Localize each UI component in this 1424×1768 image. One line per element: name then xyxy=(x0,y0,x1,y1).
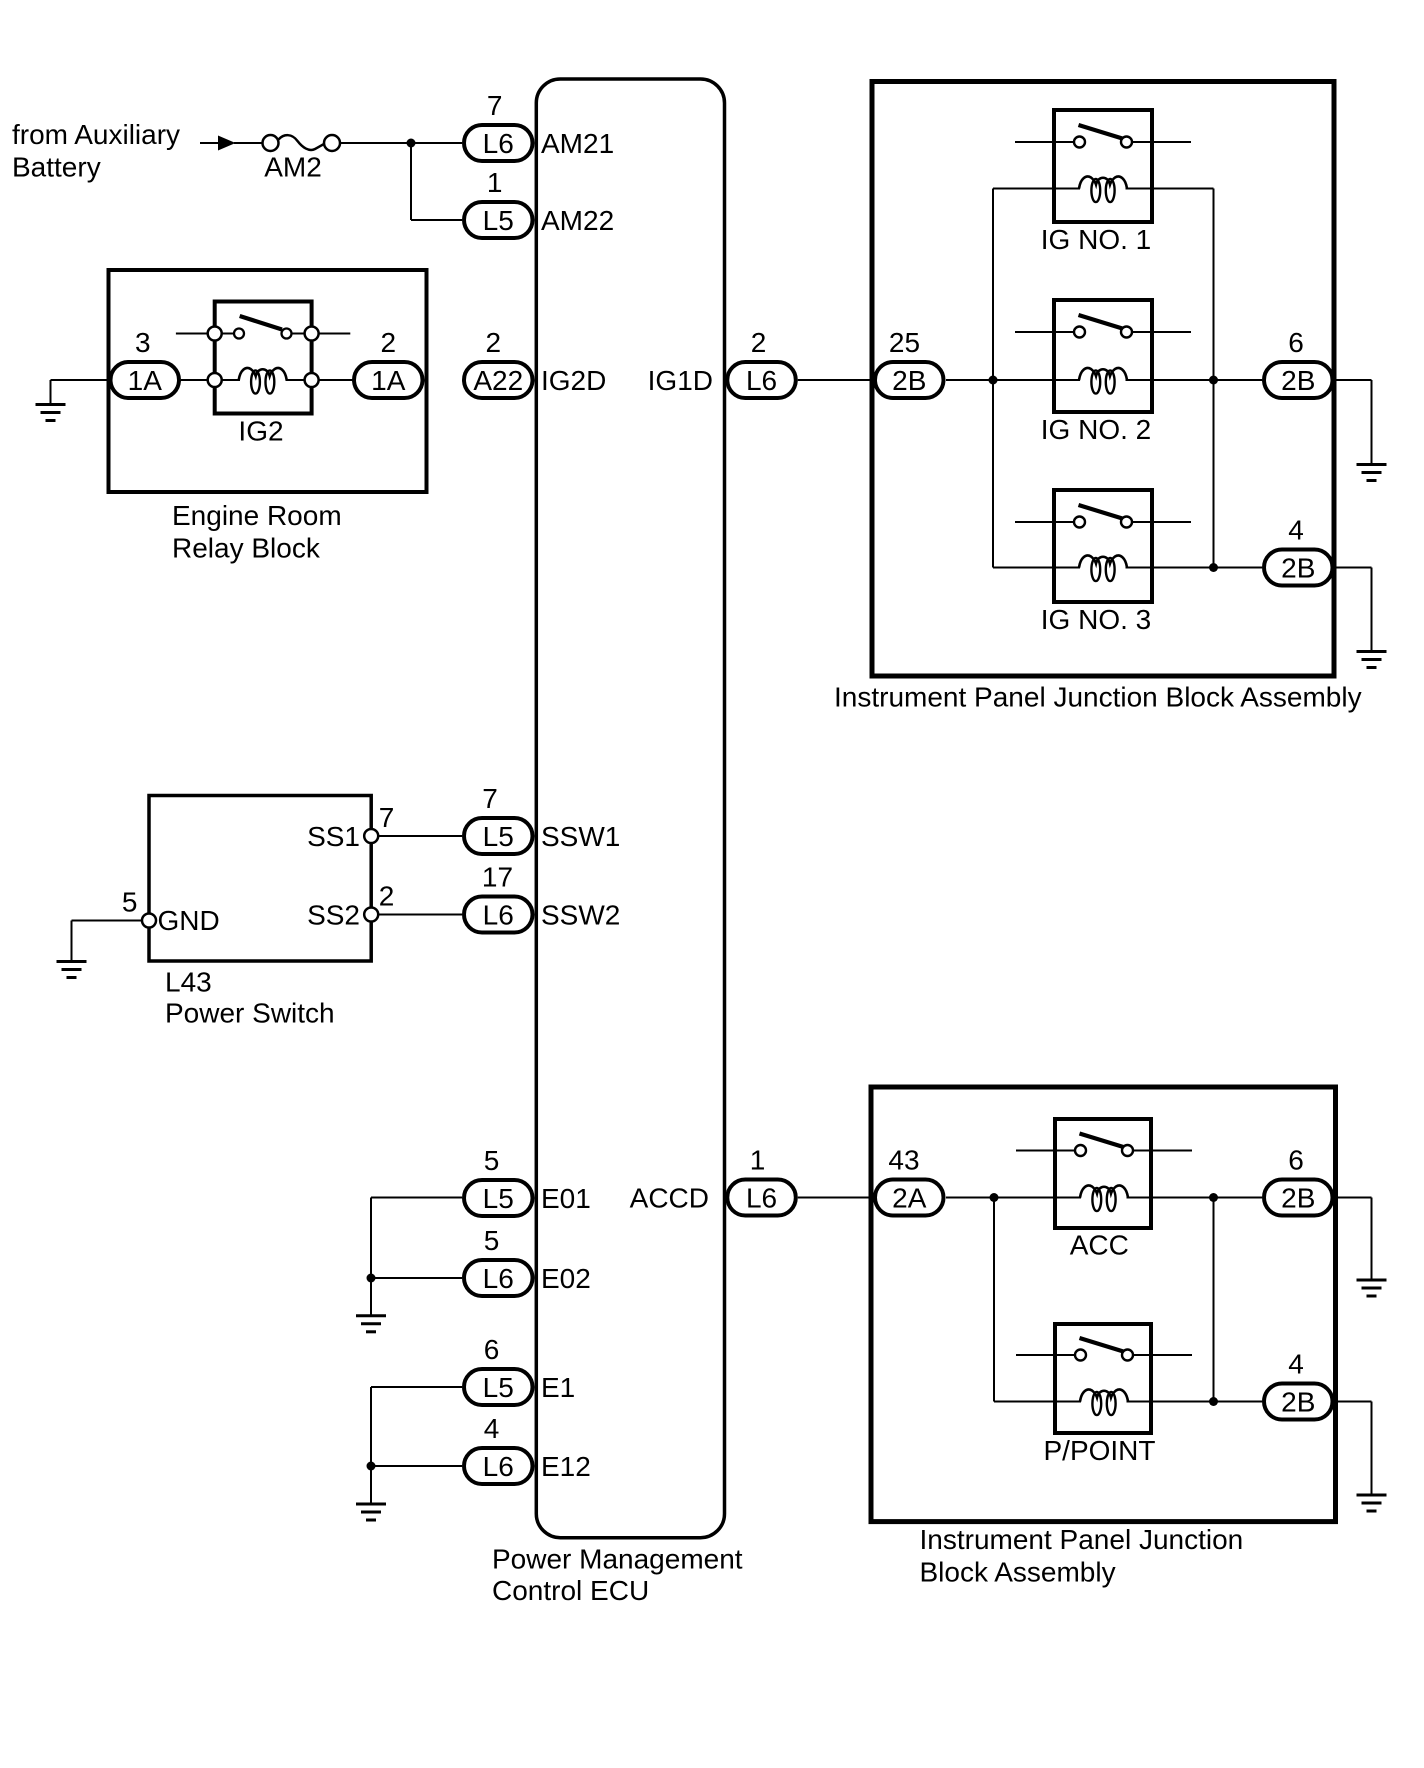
pin 7 label xyxy=(487,90,503,121)
connector 2B pin25 xyxy=(875,362,944,398)
svg-text:Control ECU: Control ECU xyxy=(492,1575,649,1606)
junction dot right bus IG3 xyxy=(1209,563,1218,572)
pin 5 label GND xyxy=(122,887,138,918)
Engine Room Relay Block box xyxy=(109,270,427,492)
label IG2 xyxy=(238,416,283,447)
wire bus to 2B6 xyxy=(1214,379,1263,381)
svg-text:L6: L6 xyxy=(483,1263,514,1294)
right bus (bottom box) xyxy=(1213,1198,1215,1402)
pin 5 label E01 xyxy=(484,1145,500,1176)
svg-text:4: 4 xyxy=(1288,1349,1304,1380)
svg-text:L6: L6 xyxy=(746,365,777,396)
wire E12 ground xyxy=(371,1465,462,1467)
wire to 2B4 bottom xyxy=(1214,1401,1263,1403)
ground 2B6 bottom xyxy=(1357,1280,1387,1296)
relay IG2 box xyxy=(215,302,312,414)
left bus (top box) xyxy=(992,189,994,568)
label P/POINT xyxy=(1043,1435,1155,1466)
Instrument Panel Junction Block box (bottom) xyxy=(871,1087,1336,1522)
svg-text:2: 2 xyxy=(486,327,502,358)
svg-text:2B: 2B xyxy=(1281,553,1315,584)
svg-text:Battery: Battery xyxy=(12,152,101,183)
svg-text:A22: A22 xyxy=(473,365,523,396)
pin 7 label SS1 xyxy=(379,802,395,833)
connector L5 pin6 E1 xyxy=(464,1369,533,1405)
pin name E12 xyxy=(541,1451,591,1482)
pin name E1 xyxy=(541,1372,575,1403)
svg-text:IG1D: IG1D xyxy=(648,365,713,396)
svg-text:E1: E1 xyxy=(541,1372,575,1403)
connector 2A pin43 xyxy=(875,1180,944,1216)
svg-text:2: 2 xyxy=(381,327,397,358)
pin name SS1 xyxy=(307,821,360,852)
connector 2B pin6 bottom xyxy=(1264,1180,1333,1216)
svg-text:ACC: ACC xyxy=(1070,1230,1129,1261)
svg-text:SS1: SS1 xyxy=(307,821,360,852)
svg-text:1: 1 xyxy=(750,1145,766,1176)
wire IG2 relay to 1A xyxy=(286,379,354,381)
pin name IG1D xyxy=(648,365,713,396)
wire coil3 row xyxy=(993,567,1214,569)
svg-text:2: 2 xyxy=(751,327,767,358)
svg-text:IG2: IG2 xyxy=(238,416,283,447)
svg-text:6: 6 xyxy=(1288,1145,1304,1176)
ground power-switch xyxy=(57,921,144,978)
connector L5 pin7 SSW1 xyxy=(464,818,533,854)
svg-text:4: 4 xyxy=(1288,515,1304,546)
svg-text:L6: L6 xyxy=(483,1451,514,1482)
wire ACCD to 2A xyxy=(798,1197,873,1199)
svg-text:2B: 2B xyxy=(892,365,926,396)
relay IG NO.2 guts xyxy=(1015,315,1191,394)
connector A22 pin2 IG2D xyxy=(464,362,533,398)
Power Switch box L43 xyxy=(149,796,371,962)
relay IG NO.3 guts xyxy=(1015,505,1191,581)
ground engine-room xyxy=(36,380,111,421)
pin name AM22 xyxy=(541,205,614,236)
relay IG NO.1 guts xyxy=(1015,125,1191,202)
connector L6 pin5 E02 xyxy=(464,1260,533,1296)
relay IG2 switch blade xyxy=(240,316,282,330)
junction dot E02 xyxy=(367,1274,376,1283)
wire SS1 to SSW1 xyxy=(378,835,462,837)
fuse AM2 xyxy=(263,135,341,151)
svg-text:2: 2 xyxy=(379,881,395,912)
ground E1 E12 xyxy=(356,1504,386,1520)
label IG NO. 3 xyxy=(1041,604,1151,635)
pin 4 label xyxy=(1288,515,1304,546)
wire ACC coil row xyxy=(994,1197,1214,1199)
ground 2B4 xyxy=(1357,652,1387,668)
connector 1A pin3 xyxy=(111,362,180,398)
svg-text:Instrument Panel Junction: Instrument Panel Junction xyxy=(920,1524,1244,1555)
relay IG NO.1 box xyxy=(1054,110,1152,222)
pin 2 label xyxy=(486,327,502,358)
label ACC xyxy=(1070,1230,1129,1261)
label Instrument Panel Junction Block Assembly xyxy=(834,682,1362,713)
wire E02 ground xyxy=(371,1277,462,1279)
svg-text:L5: L5 xyxy=(483,821,514,852)
connector 2B pin4 bottom xyxy=(1264,1384,1333,1420)
svg-text:6: 6 xyxy=(1288,327,1304,358)
relay IG NO.2 box xyxy=(1054,300,1152,412)
wire 2B6 to ground xyxy=(1335,380,1372,465)
wire branch to AM22 xyxy=(411,143,462,220)
svg-text:2A: 2A xyxy=(892,1183,927,1214)
svg-text:AM22: AM22 xyxy=(541,205,614,236)
wire SS2 to SSW2 xyxy=(378,914,462,916)
wire from auxiliary battery xyxy=(200,142,218,144)
Instrument Panel Junction Block box (top) xyxy=(872,82,1334,677)
wire E01 ground xyxy=(371,1198,462,1316)
pin name E01 xyxy=(541,1183,591,1214)
pin 6 label xyxy=(1288,327,1304,358)
pin GND circle xyxy=(142,914,156,928)
ECU box Power Management Control ECU xyxy=(536,79,724,1538)
wire 2B25 to bus xyxy=(946,379,993,381)
svg-text:2B: 2B xyxy=(1281,1183,1315,1214)
svg-text:7: 7 xyxy=(379,802,395,833)
junction dot right ACC xyxy=(1209,1193,1218,1202)
pin 1 label xyxy=(487,167,503,198)
svg-text:IG NO. 1: IG NO. 1 xyxy=(1041,224,1151,255)
svg-text:2B: 2B xyxy=(1281,1387,1315,1418)
pin 4 label E12 xyxy=(484,1413,500,1444)
svg-text:1A: 1A xyxy=(371,365,406,396)
svg-text:L43: L43 xyxy=(165,967,212,998)
pin name ACCD xyxy=(630,1183,709,1214)
svg-text:E01: E01 xyxy=(541,1183,591,1214)
svg-text:Engine Room: Engine Room xyxy=(172,500,342,531)
junction dot right P/POINT xyxy=(1209,1397,1218,1406)
svg-text:25: 25 xyxy=(889,327,920,358)
left bus (bottom box) xyxy=(993,1198,995,1402)
connector L6 pin7 AM21 xyxy=(464,125,533,161)
svg-text:3: 3 xyxy=(135,327,151,358)
pin 2 label SS2 xyxy=(379,881,395,912)
svg-text:Power Switch: Power Switch xyxy=(165,998,335,1029)
relay IG2 switch stubs xyxy=(176,333,350,335)
label AM2 xyxy=(264,152,322,183)
relay ACC guts xyxy=(1016,1134,1192,1212)
pin name SS2 xyxy=(307,900,360,931)
wire 2A to dot xyxy=(946,1197,994,1199)
svg-text:IG2D: IG2D xyxy=(541,365,606,396)
wire 2B4b to ground xyxy=(1335,1402,1372,1496)
ground 2B4 bottom xyxy=(1357,1495,1387,1511)
ground E01 E02 xyxy=(356,1316,386,1332)
node from-battery text xyxy=(12,119,180,183)
pin 2 label 1A xyxy=(381,327,397,358)
pin name SSW2 xyxy=(541,900,620,931)
label Power Management Control ECU xyxy=(492,1544,743,1607)
svg-text:IG NO. 3: IG NO. 3 xyxy=(1041,604,1151,635)
label Instrument Panel Junction Block Assembly (bottom) xyxy=(920,1524,1244,1588)
svg-text:5: 5 xyxy=(122,887,138,918)
connector 1A pin2 xyxy=(354,362,423,398)
svg-text:5: 5 xyxy=(484,1145,500,1176)
label Engine Room Relay Block xyxy=(172,500,342,564)
svg-text:SS2: SS2 xyxy=(307,900,360,931)
pin 3 label xyxy=(135,327,151,358)
pin 2 label IG1D xyxy=(751,327,767,358)
svg-text:from Auxiliary: from Auxiliary xyxy=(12,119,180,150)
svg-text:L6: L6 xyxy=(746,1183,777,1214)
pin 5 label E02 xyxy=(484,1225,500,1256)
connector L6 pin2 IG1D xyxy=(727,362,796,398)
svg-text:1A: 1A xyxy=(128,365,163,396)
label IG NO. 1 xyxy=(1041,224,1151,255)
svg-text:4: 4 xyxy=(484,1413,500,1444)
relay IG2 contacts xyxy=(234,329,292,339)
svg-text:L5: L5 xyxy=(483,1183,514,1214)
svg-text:AM21: AM21 xyxy=(541,128,614,159)
connector 2B pin4 xyxy=(1264,550,1333,586)
pin name SSW1 xyxy=(541,821,620,852)
svg-text:IG NO. 2: IG NO. 2 xyxy=(1041,414,1151,445)
svg-text:Instrument Panel Junction Bloc: Instrument Panel Junction Block Assembly xyxy=(834,682,1362,713)
svg-text:E12: E12 xyxy=(541,1451,591,1482)
relay ACC box xyxy=(1055,1119,1151,1228)
svg-text:Power Management: Power Management xyxy=(492,1544,743,1575)
wire 2B6b to ground xyxy=(1335,1198,1372,1281)
pin 7 label SSW1 xyxy=(482,783,498,814)
wire fuse to AM21 xyxy=(340,142,462,144)
pin name GND xyxy=(158,905,220,936)
wire 2B4 to ground xyxy=(1335,568,1372,652)
svg-text:AM2: AM2 xyxy=(264,152,322,183)
relay IG2 coil xyxy=(239,368,287,394)
svg-text:L6: L6 xyxy=(483,128,514,159)
junction dot AM2 branch xyxy=(407,139,416,148)
svg-text:Block Assembly: Block Assembly xyxy=(920,1557,1116,1588)
connector 2B pin6 xyxy=(1264,362,1333,398)
pin name AM21 xyxy=(541,128,614,159)
svg-text:5: 5 xyxy=(484,1225,500,1256)
wire 1A to IG2 relay xyxy=(181,379,240,381)
connector L6 pin4 E12 xyxy=(464,1448,533,1484)
pin name E02 xyxy=(541,1263,591,1294)
pin 6 label bottom xyxy=(1288,1145,1304,1176)
wire bus to 2B4 xyxy=(1214,567,1263,569)
wire coil2 row xyxy=(993,379,1214,381)
pin SS1 circle xyxy=(364,829,378,843)
relay P/POINT guts xyxy=(1016,1338,1192,1415)
label IG NO. 2 xyxy=(1041,414,1151,445)
connector L5 pin5 E01 xyxy=(464,1180,533,1216)
svg-text:ACCD: ACCD xyxy=(630,1183,709,1214)
svg-text:P/POINT: P/POINT xyxy=(1043,1435,1155,1466)
label L43 Power Switch xyxy=(165,967,335,1029)
pin 25 label xyxy=(889,327,920,358)
junction dot ACC row xyxy=(990,1193,999,1202)
svg-text:L5: L5 xyxy=(483,205,514,236)
wire P/POINT coil row xyxy=(994,1401,1214,1403)
connector L6 pin17 SSW2 xyxy=(464,897,533,933)
svg-text:7: 7 xyxy=(487,90,503,121)
svg-text:Relay Block: Relay Block xyxy=(172,533,321,564)
pin 43 label xyxy=(888,1145,919,1176)
ground 2B6 xyxy=(1357,465,1387,481)
pin 17 label xyxy=(482,862,513,893)
wire IG1D to 2B xyxy=(798,379,873,381)
svg-text:7: 7 xyxy=(482,783,498,814)
battery feed arrow xyxy=(218,136,263,151)
svg-text:E02: E02 xyxy=(541,1263,591,1294)
connector L5 pin1 AM22 xyxy=(464,202,533,238)
connector L6 pin1 ACCD xyxy=(727,1180,796,1216)
svg-text:SSW2: SSW2 xyxy=(541,900,620,931)
svg-text:6: 6 xyxy=(484,1334,500,1365)
svg-text:L6: L6 xyxy=(483,900,514,931)
svg-text:17: 17 xyxy=(482,862,513,893)
right bus (top box) xyxy=(1213,189,1215,568)
junction dot E12 xyxy=(367,1462,376,1471)
junction dot right bus IG1 xyxy=(1209,376,1218,385)
relay IG NO.3 box xyxy=(1054,490,1152,602)
junction dot left bus xyxy=(989,376,998,385)
svg-text:2B: 2B xyxy=(1281,365,1315,396)
wire to 2B6 bottom xyxy=(1214,1197,1263,1199)
svg-text:43: 43 xyxy=(888,1145,919,1176)
relay P/POINT box xyxy=(1055,1324,1151,1433)
pin SS2 circle xyxy=(364,908,378,922)
pin 1 label ACCD xyxy=(750,1145,766,1176)
relay IG2 terminal circles xyxy=(208,327,319,388)
svg-text:SSW1: SSW1 xyxy=(541,821,620,852)
wire coil1 row xyxy=(993,188,1214,190)
pin 6 label E1 xyxy=(484,1334,500,1365)
wire E1 ground xyxy=(371,1387,462,1504)
pin 4 label bottom xyxy=(1288,1349,1304,1380)
svg-text:L5: L5 xyxy=(483,1372,514,1403)
svg-text:1: 1 xyxy=(487,167,503,198)
pin name IG2D xyxy=(541,365,606,396)
svg-text:GND: GND xyxy=(158,905,220,936)
